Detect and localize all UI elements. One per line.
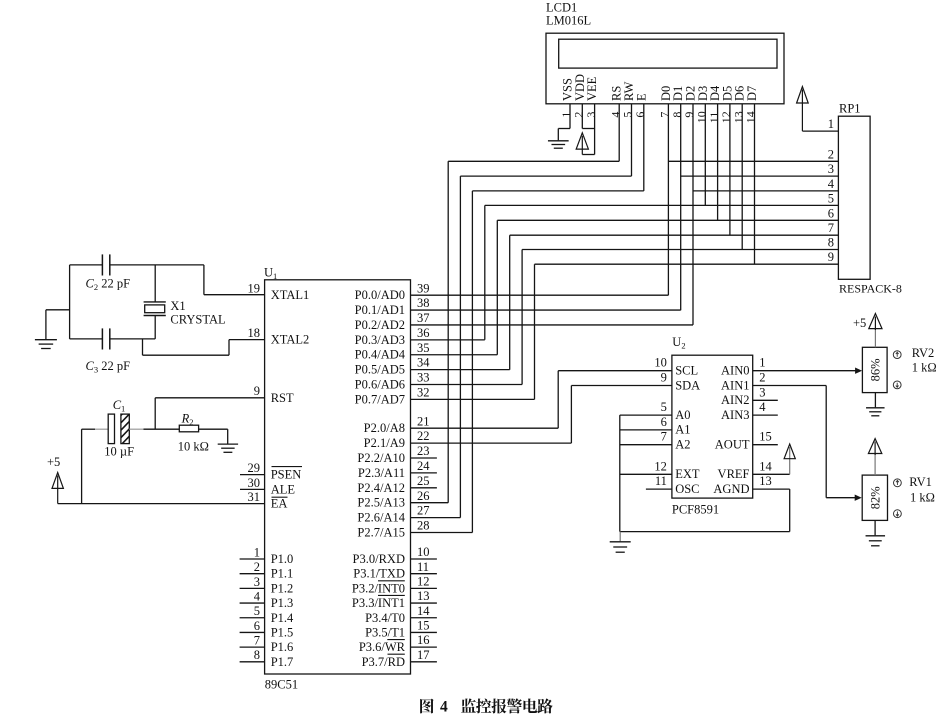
svg-text:13: 13 <box>417 589 430 603</box>
svg-text:3: 3 <box>584 112 598 118</box>
svg-text:2: 2 <box>254 560 260 574</box>
svg-text:34: 34 <box>417 356 430 370</box>
svg-text:+5: +5 <box>853 316 866 330</box>
svg-text:9: 9 <box>254 384 260 398</box>
svg-text:RV2: RV2 <box>912 346 935 360</box>
svg-text:14: 14 <box>417 604 430 618</box>
svg-text:12: 12 <box>417 574 430 588</box>
svg-text:10 kΩ: 10 kΩ <box>178 439 209 453</box>
svg-text:2: 2 <box>759 371 765 385</box>
svg-text:P0.2/AD2: P0.2/AD2 <box>355 318 405 332</box>
svg-text:P1.3: P1.3 <box>271 596 294 610</box>
svg-text:E: E <box>634 93 648 101</box>
svg-text:10: 10 <box>417 545 430 559</box>
svg-text:19: 19 <box>248 281 261 295</box>
svg-text:SCL: SCL <box>675 364 698 378</box>
svg-text:X1: X1 <box>170 299 185 313</box>
svg-text:P1.6: P1.6 <box>271 640 294 654</box>
svg-text:PCF8591: PCF8591 <box>672 503 719 517</box>
svg-text:16: 16 <box>417 633 430 647</box>
svg-text:4: 4 <box>759 400 766 414</box>
svg-text:OSC: OSC <box>675 482 699 496</box>
svg-text:6: 6 <box>254 619 260 633</box>
svg-text:3: 3 <box>828 162 834 176</box>
svg-text:P1.5: P1.5 <box>271 625 294 639</box>
svg-text:RESPACK-8: RESPACK-8 <box>839 282 902 296</box>
svg-text:8: 8 <box>254 648 260 662</box>
svg-text:C3 22 pF: C3 22 pF <box>86 359 131 375</box>
svg-text:P2.2/A10: P2.2/A10 <box>357 451 405 465</box>
svg-text:5: 5 <box>254 604 260 618</box>
svg-text:17: 17 <box>417 648 430 662</box>
svg-text:23: 23 <box>417 444 430 458</box>
svg-text:P3.7/RD: P3.7/RD <box>362 655 405 669</box>
svg-text:XTAL1: XTAL1 <box>271 288 310 302</box>
svg-text:38: 38 <box>417 296 430 310</box>
svg-text:EA: EA <box>271 497 288 511</box>
svg-text:29: 29 <box>248 461 261 475</box>
svg-text:12: 12 <box>654 459 667 473</box>
svg-text:AIN3: AIN3 <box>721 408 749 422</box>
svg-text:P0.1/AD1: P0.1/AD1 <box>355 303 405 317</box>
svg-text:P2.1/A9: P2.1/A9 <box>364 436 405 450</box>
svg-text:89C51: 89C51 <box>265 678 298 692</box>
svg-text:11: 11 <box>417 560 429 574</box>
svg-text:P0.3/AD3: P0.3/AD3 <box>355 333 405 347</box>
svg-text:22: 22 <box>417 429 430 443</box>
svg-text:18: 18 <box>248 326 261 340</box>
svg-text:RP1: RP1 <box>839 102 861 116</box>
svg-text:A1: A1 <box>675 423 690 437</box>
svg-text:P2.6/A14: P2.6/A14 <box>357 511 405 525</box>
svg-text:24: 24 <box>417 459 430 473</box>
svg-text:P2.4/A12: P2.4/A12 <box>357 481 405 495</box>
svg-text:P1.7: P1.7 <box>271 655 294 669</box>
svg-text:LM016L: LM016L <box>546 14 591 28</box>
svg-text:A0: A0 <box>675 408 690 422</box>
svg-text:4: 4 <box>254 589 261 603</box>
svg-text:VREF: VREF <box>718 467 750 481</box>
svg-text:4: 4 <box>440 699 448 716</box>
svg-text:15: 15 <box>759 430 772 444</box>
svg-text:AOUT: AOUT <box>715 438 750 452</box>
svg-text:P2.3/A11: P2.3/A11 <box>358 466 405 480</box>
svg-text:1 kΩ: 1 kΩ <box>912 360 937 374</box>
svg-text:7: 7 <box>661 430 667 444</box>
svg-text:P1.1: P1.1 <box>271 567 294 581</box>
svg-text:35: 35 <box>417 341 430 355</box>
svg-text:32: 32 <box>417 385 430 399</box>
svg-text:P0.4/AD4: P0.4/AD4 <box>355 348 406 362</box>
svg-text:6: 6 <box>661 415 667 429</box>
svg-text:3: 3 <box>759 385 765 399</box>
svg-text:15: 15 <box>417 619 430 633</box>
svg-text:P1.4: P1.4 <box>271 611 294 625</box>
svg-text:3: 3 <box>254 575 260 589</box>
svg-text:A2: A2 <box>675 438 690 452</box>
svg-text:7: 7 <box>254 634 260 648</box>
svg-text:1: 1 <box>254 545 260 559</box>
svg-text:33: 33 <box>417 371 430 385</box>
svg-text:P1.0: P1.0 <box>271 552 294 566</box>
svg-text:82%: 82% <box>869 486 883 509</box>
svg-text:SDA: SDA <box>675 378 700 392</box>
svg-text:AIN2: AIN2 <box>721 393 749 407</box>
svg-text:14: 14 <box>759 459 772 473</box>
svg-text:1: 1 <box>759 356 765 370</box>
svg-text:P2.7/A15: P2.7/A15 <box>357 526 405 540</box>
svg-text:10 µF: 10 µF <box>104 444 134 458</box>
svg-text:26: 26 <box>417 489 430 503</box>
svg-text:AIN1: AIN1 <box>721 378 749 392</box>
svg-text:6: 6 <box>633 112 647 118</box>
svg-text:LCD1: LCD1 <box>546 1 577 15</box>
svg-text:P3.5/T1: P3.5/T1 <box>365 625 405 639</box>
svg-text:28: 28 <box>417 519 430 533</box>
svg-text:D7: D7 <box>745 86 759 101</box>
svg-text:6: 6 <box>828 206 834 220</box>
svg-text:9: 9 <box>828 250 834 264</box>
svg-text:+5: +5 <box>47 455 60 469</box>
svg-text:XTAL2: XTAL2 <box>271 333 310 347</box>
svg-text:9: 9 <box>661 371 667 385</box>
svg-text:21: 21 <box>417 414 430 428</box>
svg-text:P0.5/AD5: P0.5/AD5 <box>355 363 405 377</box>
svg-text:P3.0/RXD: P3.0/RXD <box>353 552 405 566</box>
svg-text:PSEN: PSEN <box>271 468 302 482</box>
svg-text:36: 36 <box>417 326 430 340</box>
svg-text:4: 4 <box>828 177 835 191</box>
svg-text:P0.6/AD6: P0.6/AD6 <box>355 377 405 391</box>
svg-text:P3.1/TXD: P3.1/TXD <box>353 567 405 581</box>
svg-text:7: 7 <box>828 221 834 235</box>
svg-text:P3.3/INT1: P3.3/INT1 <box>352 596 405 610</box>
svg-text:P0.7/AD7: P0.7/AD7 <box>355 392 405 406</box>
svg-text:VEE: VEE <box>585 76 599 101</box>
svg-text:37: 37 <box>417 311 430 325</box>
svg-text:C2 22 pF: C2 22 pF <box>86 277 131 293</box>
svg-text:5: 5 <box>828 191 834 205</box>
svg-text:86%: 86% <box>869 358 883 381</box>
svg-text:CRYSTAL: CRYSTAL <box>170 312 225 326</box>
svg-text:8: 8 <box>828 236 834 250</box>
svg-text:11: 11 <box>655 474 667 488</box>
svg-text:5: 5 <box>661 400 667 414</box>
svg-text:1: 1 <box>828 117 834 131</box>
svg-text:RV1: RV1 <box>909 475 932 489</box>
svg-text:AGND: AGND <box>713 482 749 496</box>
svg-text:14: 14 <box>744 111 758 123</box>
svg-text:2: 2 <box>828 147 834 161</box>
svg-text:10: 10 <box>654 356 667 370</box>
svg-text:P3.4/T0: P3.4/T0 <box>365 611 405 625</box>
svg-text:27: 27 <box>417 504 430 518</box>
svg-text:39: 39 <box>417 281 430 295</box>
svg-text:25: 25 <box>417 474 430 488</box>
svg-text:P3.2/INT0: P3.2/INT0 <box>352 581 405 595</box>
svg-text:13: 13 <box>759 474 772 488</box>
svg-text:P2.0/A8: P2.0/A8 <box>364 421 405 435</box>
svg-text:P0.0/AD0: P0.0/AD0 <box>355 288 405 302</box>
svg-text:RST: RST <box>271 391 294 405</box>
svg-text:P3.6/WR: P3.6/WR <box>359 640 406 654</box>
svg-text:31: 31 <box>248 490 261 504</box>
svg-text:1 kΩ: 1 kΩ <box>910 491 935 505</box>
svg-text:P1.2: P1.2 <box>271 581 294 595</box>
svg-text:30: 30 <box>248 476 261 490</box>
svg-text:AIN0: AIN0 <box>721 364 749 378</box>
svg-text:ALE: ALE <box>271 482 296 496</box>
svg-text:P2.5/A13: P2.5/A13 <box>357 496 405 510</box>
svg-text:EXT: EXT <box>675 467 700 481</box>
